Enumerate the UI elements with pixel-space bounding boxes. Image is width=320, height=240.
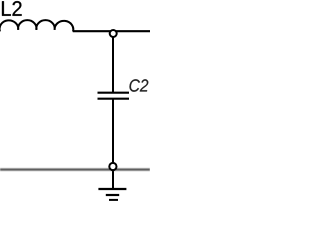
- wire vertical from top node to capacitor: [112, 34, 114, 93]
- node top junction: [110, 30, 117, 37]
- node bottom junction: [109, 163, 116, 170]
- inductor L2: [0, 20, 73, 31]
- label L2: [2, 1, 22, 16]
- ground: [98, 189, 126, 200]
- wire top horizontal: [73, 30, 150, 32]
- wire bottom horizontal (grey rail): [0, 168, 150, 170]
- label C2: [130, 79, 149, 91]
- wire vertical from capacitor to ground: [112, 99, 114, 189]
- capacitor C2: [98, 93, 130, 99]
